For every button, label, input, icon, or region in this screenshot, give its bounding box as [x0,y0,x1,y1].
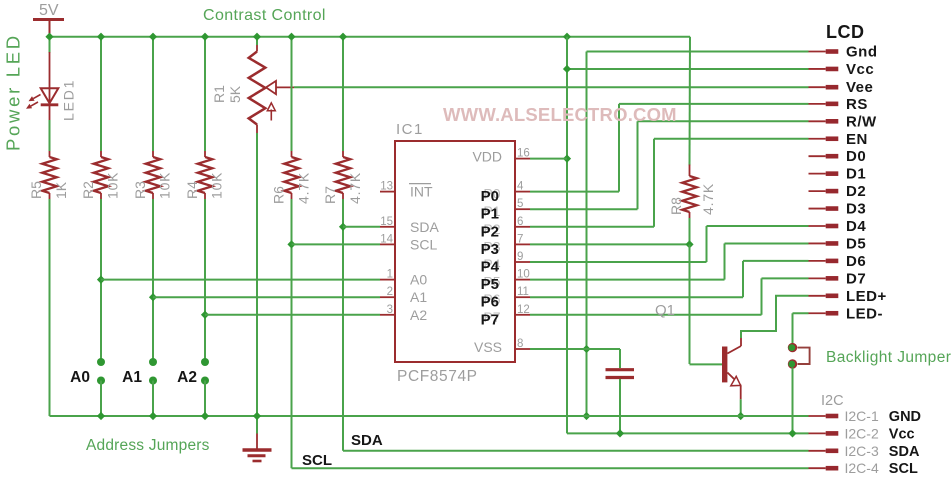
svg-text:GND: GND [889,409,921,425]
svg-text:SCL: SCL [889,461,918,477]
svg-text:SCL: SCL [410,236,437,252]
svg-text:SDA: SDA [410,219,439,235]
svg-text:D6: D6 [846,253,866,270]
svg-text:R4: R4 [184,181,200,199]
svg-text:D5: D5 [846,235,866,252]
svg-text:R5: R5 [28,181,44,199]
svg-text:4: 4 [517,181,524,193]
svg-text:Backlight Jumper: Backlight Jumper [826,349,951,366]
svg-text:D2: D2 [846,183,866,200]
svg-text:SDA: SDA [889,444,920,460]
svg-text:PCF8574P: PCF8574P [397,368,478,385]
svg-text:R7: R7 [322,186,338,204]
svg-text:Power LED: Power LED [3,33,24,151]
svg-text:3: 3 [387,304,393,316]
svg-text:9: 9 [517,251,523,263]
svg-text:I2C-4: I2C-4 [845,460,879,476]
svg-text:D0: D0 [846,148,866,165]
svg-text:4.7K: 4.7K [296,172,312,204]
svg-text:13: 13 [380,181,393,193]
svg-text:INT: INT [410,184,433,200]
svg-text:RS: RS [846,96,868,113]
svg-text:6: 6 [517,216,523,228]
svg-text:I2C-1: I2C-1 [845,408,879,424]
svg-text:Vcc: Vcc [846,61,874,78]
svg-text:A1: A1 [122,369,142,386]
svg-text:LED+: LED+ [846,288,887,305]
svg-text:2: 2 [387,286,393,298]
svg-text:A2: A2 [410,307,427,323]
svg-text:R/W: R/W [846,113,877,130]
svg-text:I2C: I2C [821,393,844,409]
svg-text:LED1: LED1 [61,79,77,121]
svg-text:10K: 10K [157,172,173,199]
svg-text:5: 5 [517,198,523,210]
svg-text:5V: 5V [39,2,59,19]
svg-text:4.7K: 4.7K [700,183,716,215]
svg-text:D3: D3 [846,201,866,218]
svg-text:EN: EN [846,131,868,148]
svg-text:Vee: Vee [846,79,873,96]
svg-text:16: 16 [517,148,530,160]
svg-text:SCL: SCL [302,452,332,469]
svg-text:A0: A0 [70,369,90,386]
svg-text:I2C-2: I2C-2 [845,425,879,441]
svg-text:11: 11 [517,286,529,298]
svg-text:R3: R3 [132,181,148,199]
svg-text:R8: R8 [668,197,684,215]
svg-text:A0: A0 [410,272,427,288]
svg-text:R6: R6 [271,186,287,204]
svg-text:R1: R1 [211,85,227,103]
svg-text:10K: 10K [105,172,121,199]
svg-text:Contrast Control: Contrast Control [203,7,326,24]
svg-text:SDA: SDA [351,432,383,449]
svg-text:7: 7 [517,233,523,245]
svg-text:Q1: Q1 [655,302,675,319]
svg-text:A2: A2 [177,369,197,386]
svg-text:Vcc: Vcc [889,426,915,442]
svg-text:8: 8 [517,338,523,350]
svg-text:IC1: IC1 [396,121,424,138]
svg-text:10K: 10K [209,172,225,199]
svg-text:1: 1 [387,269,393,281]
svg-text:Gnd: Gnd [846,44,878,61]
svg-text:5K: 5K [227,85,243,103]
svg-text:Address Jumpers: Address Jumpers [86,437,210,454]
svg-text:1K: 1K [53,181,69,199]
svg-text:VSS: VSS [474,339,502,355]
svg-text:D1: D1 [846,166,866,183]
svg-text:D7: D7 [846,270,866,287]
svg-text:4.7K: 4.7K [347,172,363,204]
svg-text:A1: A1 [410,289,427,305]
svg-text:10: 10 [517,269,530,281]
svg-text:LED-: LED- [846,305,883,322]
svg-text:VDD: VDD [472,149,502,165]
svg-text:I2C-3: I2C-3 [845,443,879,459]
svg-text:14: 14 [380,233,393,245]
svg-text:R2: R2 [80,181,96,199]
svg-text:WWW.ALSELECTRO.COM: WWW.ALSELECTRO.COM [443,104,677,125]
svg-text:D4: D4 [846,218,866,235]
svg-text:15: 15 [380,216,393,228]
svg-text:P7: P7 [481,311,499,328]
svg-text:LCD: LCD [826,22,865,42]
svg-text:12: 12 [517,304,530,316]
